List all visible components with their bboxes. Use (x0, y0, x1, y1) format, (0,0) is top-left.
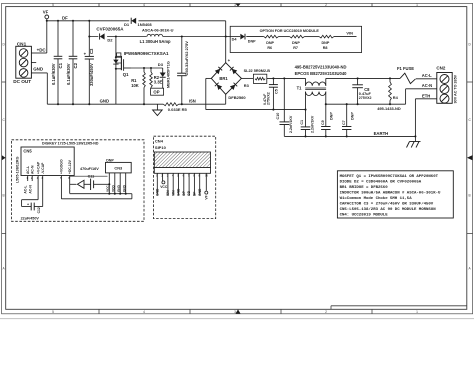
svg-text:AC-N: AC-N (30, 165, 34, 174)
page bottom shadow (0, 318, 474, 320)
svg-text:VIN: VIN (346, 30, 353, 35)
node OP (gate drive) (151, 88, 164, 95)
svg-text:EPCOS B82725V2103U040: EPCOS B82725V2103U040 (295, 71, 348, 76)
svg-text:22uF/450V: 22uF/450V (21, 216, 40, 220)
svg-text:10K: 10K (131, 83, 139, 88)
wire: R2/D3 to OP (151, 91, 163, 93)
wire: AC-L upper line (326, 77, 400, 79)
svg-text:AC-L: AC-L (422, 73, 432, 78)
net label VIN (334, 30, 357, 36)
capacitor C9 DNP (321, 104, 334, 137)
svg-text:1: 1 (416, 3, 418, 7)
svg-text:VCC: VCC (160, 185, 168, 189)
svg-text:DNP: DNP (351, 112, 355, 120)
svg-text:VOD: VOD (112, 184, 116, 192)
svg-text:495-B82725V2133U040-ND: 495-B82725V2133U040-ND (295, 64, 347, 69)
transistor Q1 IPW65R099C7XKSA1 (113, 35, 169, 104)
svg-text:W1=Common Mode Choke 5MH 11,5A: W1=Common Mode Choke 5MH 11,5A (340, 196, 413, 201)
test point VF (43, 9, 49, 53)
svg-text:CN2: CN2 (436, 66, 445, 71)
svg-text:AC-L: AC-L (24, 186, 28, 194)
svg-text:470uF/16V: 470uF/16V (80, 167, 99, 171)
connector CN4 SIP10 (154, 139, 210, 174)
capacitor C5 0.47uF 275VX2 (263, 78, 278, 110)
wire (246, 36, 263, 38)
svg-text:MBR1405FT1G: MBR1405FT1G (166, 61, 170, 88)
transformer T1 common mode choke (295, 64, 348, 109)
svg-text:3: 3 (234, 310, 236, 314)
wire: bridge - to ISN bus (225, 94, 227, 104)
svg-text:VF: VF (43, 9, 49, 14)
title block outline (331, 306, 467, 310)
svg-text:OP: OP (153, 90, 159, 95)
CN1 pin GND (31, 67, 47, 73)
svg-text:CN5:L505-138/2R3 AC 90 DC MODU: CN5:L505-138/2R3 AC 90 DC MODULE MORNSUN (340, 207, 437, 212)
svg-text:B: B (3, 194, 5, 198)
svg-text:R3: R3 (244, 83, 250, 88)
svg-text:AC-L: AC-L (26, 166, 30, 174)
svg-text:ISN: ISN (189, 98, 196, 103)
svg-text:+V-CAP: +V-CAP (36, 161, 40, 174)
svg-text:R6: R6 (267, 46, 272, 50)
svg-text:BR1: BR1 (219, 76, 228, 81)
wire: GND bus (47, 73, 225, 105)
wire: bridge AC1 down (206, 78, 212, 109)
CN3 pins (70, 173, 127, 195)
capacitor C7 DNP (342, 104, 355, 137)
wire: EARTH line (284, 135, 416, 137)
connector CN3 (106, 159, 132, 173)
ground symbol (153, 104, 163, 115)
svg-text:DC OUT: DC OUT (13, 79, 31, 84)
svg-text:GND: GND (117, 184, 121, 192)
svg-text:VIN: VIN (171, 190, 175, 196)
CN1 pin 2 stub (31, 62, 36, 64)
svg-text:SL22 5R0M2-B: SL22 5R0M2-B (244, 69, 271, 73)
svg-text:C1: C1 (300, 120, 304, 125)
svg-text:ISN: ISN (166, 190, 170, 196)
svg-text:CN3: CN3 (114, 166, 123, 171)
svg-text:CN5: CN5 (23, 148, 32, 153)
diode D2 CVF020065A (96, 27, 124, 43)
connector CN2 (AC input) (436, 66, 457, 104)
svg-text:MOSFET Q1 = IPW65R099C7XKSA1: MOSFET Q1 = IPW65R099C7XKSA1 OR APP20N60… (340, 175, 439, 179)
svg-text:L1 300uH 5Amp: L1 300uH 5Amp (140, 39, 171, 44)
capacitor C8 0.47uF 275VX2 (352, 77, 371, 104)
earth symbol (407, 136, 421, 147)
svg-text:3: 3 (234, 3, 236, 7)
svg-text:F1 FUSE: F1 FUSE (397, 66, 414, 71)
svg-text:DNP: DNP (322, 41, 330, 45)
svg-text:DNP: DNP (292, 41, 300, 45)
svg-text:D2: D2 (107, 38, 113, 43)
svg-text:DFB2560: DFB2560 (228, 95, 246, 100)
resistor R7 DNP (290, 35, 305, 50)
svg-text:275VX2: 275VX2 (267, 92, 271, 105)
svg-text:C5: C5 (274, 89, 278, 94)
option box (UCC28019 module) (230, 26, 361, 52)
CN4 pins (155, 173, 208, 199)
svg-text:2.2nF/1KV: 2.2nF/1KV (311, 115, 315, 133)
svg-text:C2: C2 (73, 62, 78, 68)
svg-text:ASCA-06-301K-U: ASCA-06-301K-U (142, 27, 174, 32)
svg-text:5: 5 (52, 310, 54, 314)
inductor L1 300uH 5Amp (140, 27, 174, 43)
resistor R8 DNP (319, 35, 334, 50)
svg-text:275VX2: 275VX2 (359, 96, 372, 100)
svg-text:2: 2 (325, 3, 327, 7)
svg-text:B: B (469, 194, 471, 198)
svg-text:C1: C1 (58, 62, 63, 68)
svg-text:DF: DF (62, 16, 68, 21)
svg-text:GND: GND (177, 188, 181, 196)
svg-text:CN4: UCC28019 MODULE: CN4: UCC28019 MODULE (340, 214, 389, 218)
capacitor C2 0.1uF/630V (66, 21, 78, 104)
diode D1 1N5408 (124, 17, 152, 27)
svg-text:GD: GD (187, 190, 191, 196)
svg-text:3.3E: 3.3E (154, 79, 163, 84)
wire: R3 to T1 top (267, 77, 306, 79)
svg-text:EARTH: EARTH (374, 131, 389, 136)
svg-text:R4: R4 (393, 95, 399, 100)
module box CN5 (AC/DC module) (12, 140, 145, 222)
capacitor C12 22uF/450V (21, 176, 43, 221)
svg-text:VCC: VCC (106, 185, 110, 192)
svg-text:INDUCTOR 300uH/5A ABRACON #: INDUCTOR 300uH/5A ABRACON # ASCA-06-301K… (340, 190, 441, 195)
svg-text:VF: VF (204, 195, 208, 199)
bridge rectifier BR1 DFB2560 (211, 58, 246, 100)
svg-text:CN4: CN4 (155, 139, 164, 144)
svg-text:0.1uF/630V: 0.1uF/630V (66, 63, 71, 85)
junction C1 top (57, 20, 59, 22)
svg-text:5: 5 (52, 3, 54, 7)
svg-text:GND: GND (155, 188, 159, 196)
capacitor C4 0.33uF/X2 275V (177, 35, 189, 105)
junction C3 top (88, 20, 90, 22)
wire: AC return line (206, 109, 307, 111)
wire AC-L stub (24, 176, 28, 194)
capacitor C10 2.2nF/1KV (Y) (276, 78, 293, 136)
svg-text:-V-CAP: -V-CAP (41, 162, 45, 174)
wire: bus to bridge + (225, 21, 227, 63)
svg-text:T1: T1 (297, 85, 303, 90)
wire: bridge AC2 to R3 (241, 77, 253, 79)
resistor R6 DNP (264, 35, 279, 50)
wire: AC-N riser (406, 89, 437, 104)
svg-text:4: 4 (143, 310, 145, 314)
fuse F1 (397, 66, 437, 84)
diode D4 DNP (232, 34, 257, 44)
svg-text:2: 2 (325, 310, 327, 314)
svg-text:1: 1 (416, 310, 418, 314)
svg-text:DIGIKEY 1725-L505-13W12R5-ND: DIGIKEY 1725-L505-13W12R5-ND (42, 141, 99, 145)
capacitor C11 470uF/16V (70, 167, 111, 194)
wire: AC-N lower line (325, 103, 406, 105)
svg-text:C10: C10 (276, 113, 280, 120)
svg-text:OPTION FOR UCC28019 MODULE: OPTION FOR UCC28019 MODULE (260, 29, 320, 33)
svg-text:CVF020065A: CVF020065A (96, 27, 124, 32)
svg-text:C8: C8 (364, 87, 370, 92)
svg-text:0.1uF/630V: 0.1uF/630V (51, 63, 56, 85)
junction C2 top (72, 20, 74, 22)
svg-text:+DC-12V: +DC-12V (68, 159, 72, 174)
wire: ETH (415, 99, 436, 137)
svg-text:BR1 BRIDGE = DFB2560: BR1 BRIDGE = DFB2560 (340, 186, 389, 190)
svg-text:R7: R7 (293, 46, 298, 50)
svg-text:C7: C7 (342, 120, 346, 125)
module box CN4 (UCC28019 module) (154, 136, 216, 218)
svg-text:495-1433-ND: 495-1433-ND (377, 106, 401, 111)
svg-text:AC-N: AC-N (422, 83, 432, 88)
svg-text:AC-N: AC-N (28, 185, 32, 194)
svg-text:DF: DF (193, 192, 197, 196)
capacitor C3 330uF/450V (electrolytic) (84, 21, 95, 104)
svg-text:+DC: +DC (37, 47, 47, 52)
svg-text:DNP: DNP (330, 112, 334, 120)
wire AC-N stub (28, 176, 32, 194)
svg-text:C3: C3 (89, 48, 94, 54)
resistor R4 495-1433-ND (377, 77, 401, 111)
wire: +DC/VF output bus (46, 20, 226, 22)
svg-text:+VGOGO: +VGOGO (60, 159, 64, 174)
wire VGOGO (61, 176, 131, 199)
svg-text:IPW65R099C7XKSA1: IPW65R099C7XKSA1 (124, 51, 169, 56)
svg-text:GND: GND (123, 184, 127, 192)
notes box (337, 171, 453, 218)
svg-text:+: + (27, 202, 29, 206)
svg-text:R8: R8 (323, 46, 328, 50)
wire: switch-node bus (88, 35, 225, 37)
capacitor C1 0.1uF/630V (51, 21, 63, 104)
svg-text:D3: D3 (158, 62, 164, 67)
capacitor C1 2.2nF/1KV (Y) (300, 110, 314, 138)
diode D3 MBR1405FT1G (158, 61, 171, 91)
svg-text:CAPACITOR C3 = 270uF/450V OR 3: CAPACITOR C3 = 270uF/450V OR 330UF/450V (340, 202, 434, 207)
wire: option feed (226, 36, 240, 38)
svg-text:CN1: CN1 (17, 41, 27, 46)
connector CN1 (DC OUT) (13, 41, 31, 84)
svg-text:C9: C9 (321, 120, 325, 125)
svg-text:C12: C12 (37, 207, 41, 213)
svg-text:SIP10: SIP10 (155, 145, 167, 150)
thermistor R3 SL22 5R0M2-B (244, 69, 271, 88)
resistor R1 10K (131, 68, 145, 105)
svg-text:DNP: DNP (266, 41, 274, 45)
svg-text:DIODE D2 = C3D04060A OR CVF02: DIODE D2 = C3D04060A OR CVF020065A (340, 180, 422, 184)
svg-text:GND: GND (198, 188, 202, 196)
svg-text:Q1: Q1 (123, 72, 129, 77)
svg-text:DNP: DNP (248, 40, 256, 44)
svg-text:D1: D1 (124, 22, 130, 27)
wire (304, 36, 319, 38)
svg-text:0.33uF/X2 275V: 0.33uF/X2 275V (184, 41, 189, 71)
svg-text:4: 4 (143, 3, 145, 7)
svg-text:0.033E R5: 0.033E R5 (168, 107, 188, 112)
resistor R5 0.033E shunt (163, 103, 187, 112)
svg-text:2.2nF/1KV: 2.2nF/1KV (289, 115, 293, 133)
svg-text:GND: GND (33, 67, 44, 72)
svg-text:GND: GND (100, 99, 109, 104)
wire (279, 36, 290, 38)
wire: gate node (131, 67, 163, 69)
svg-text:L505-138/12RG: L505-138/12RG (16, 156, 20, 183)
svg-text:330uF/450V: 330uF/450V (89, 63, 94, 86)
svg-text:90V AC TO 265V: 90V AC TO 265V (454, 74, 458, 103)
resistor R2 3.3E (150, 68, 163, 92)
svg-text:OP: OP (182, 190, 186, 196)
module CN5 (21, 147, 74, 180)
CN1 pin +DC (31, 47, 46, 53)
svg-text:ETH: ETH (422, 93, 430, 98)
